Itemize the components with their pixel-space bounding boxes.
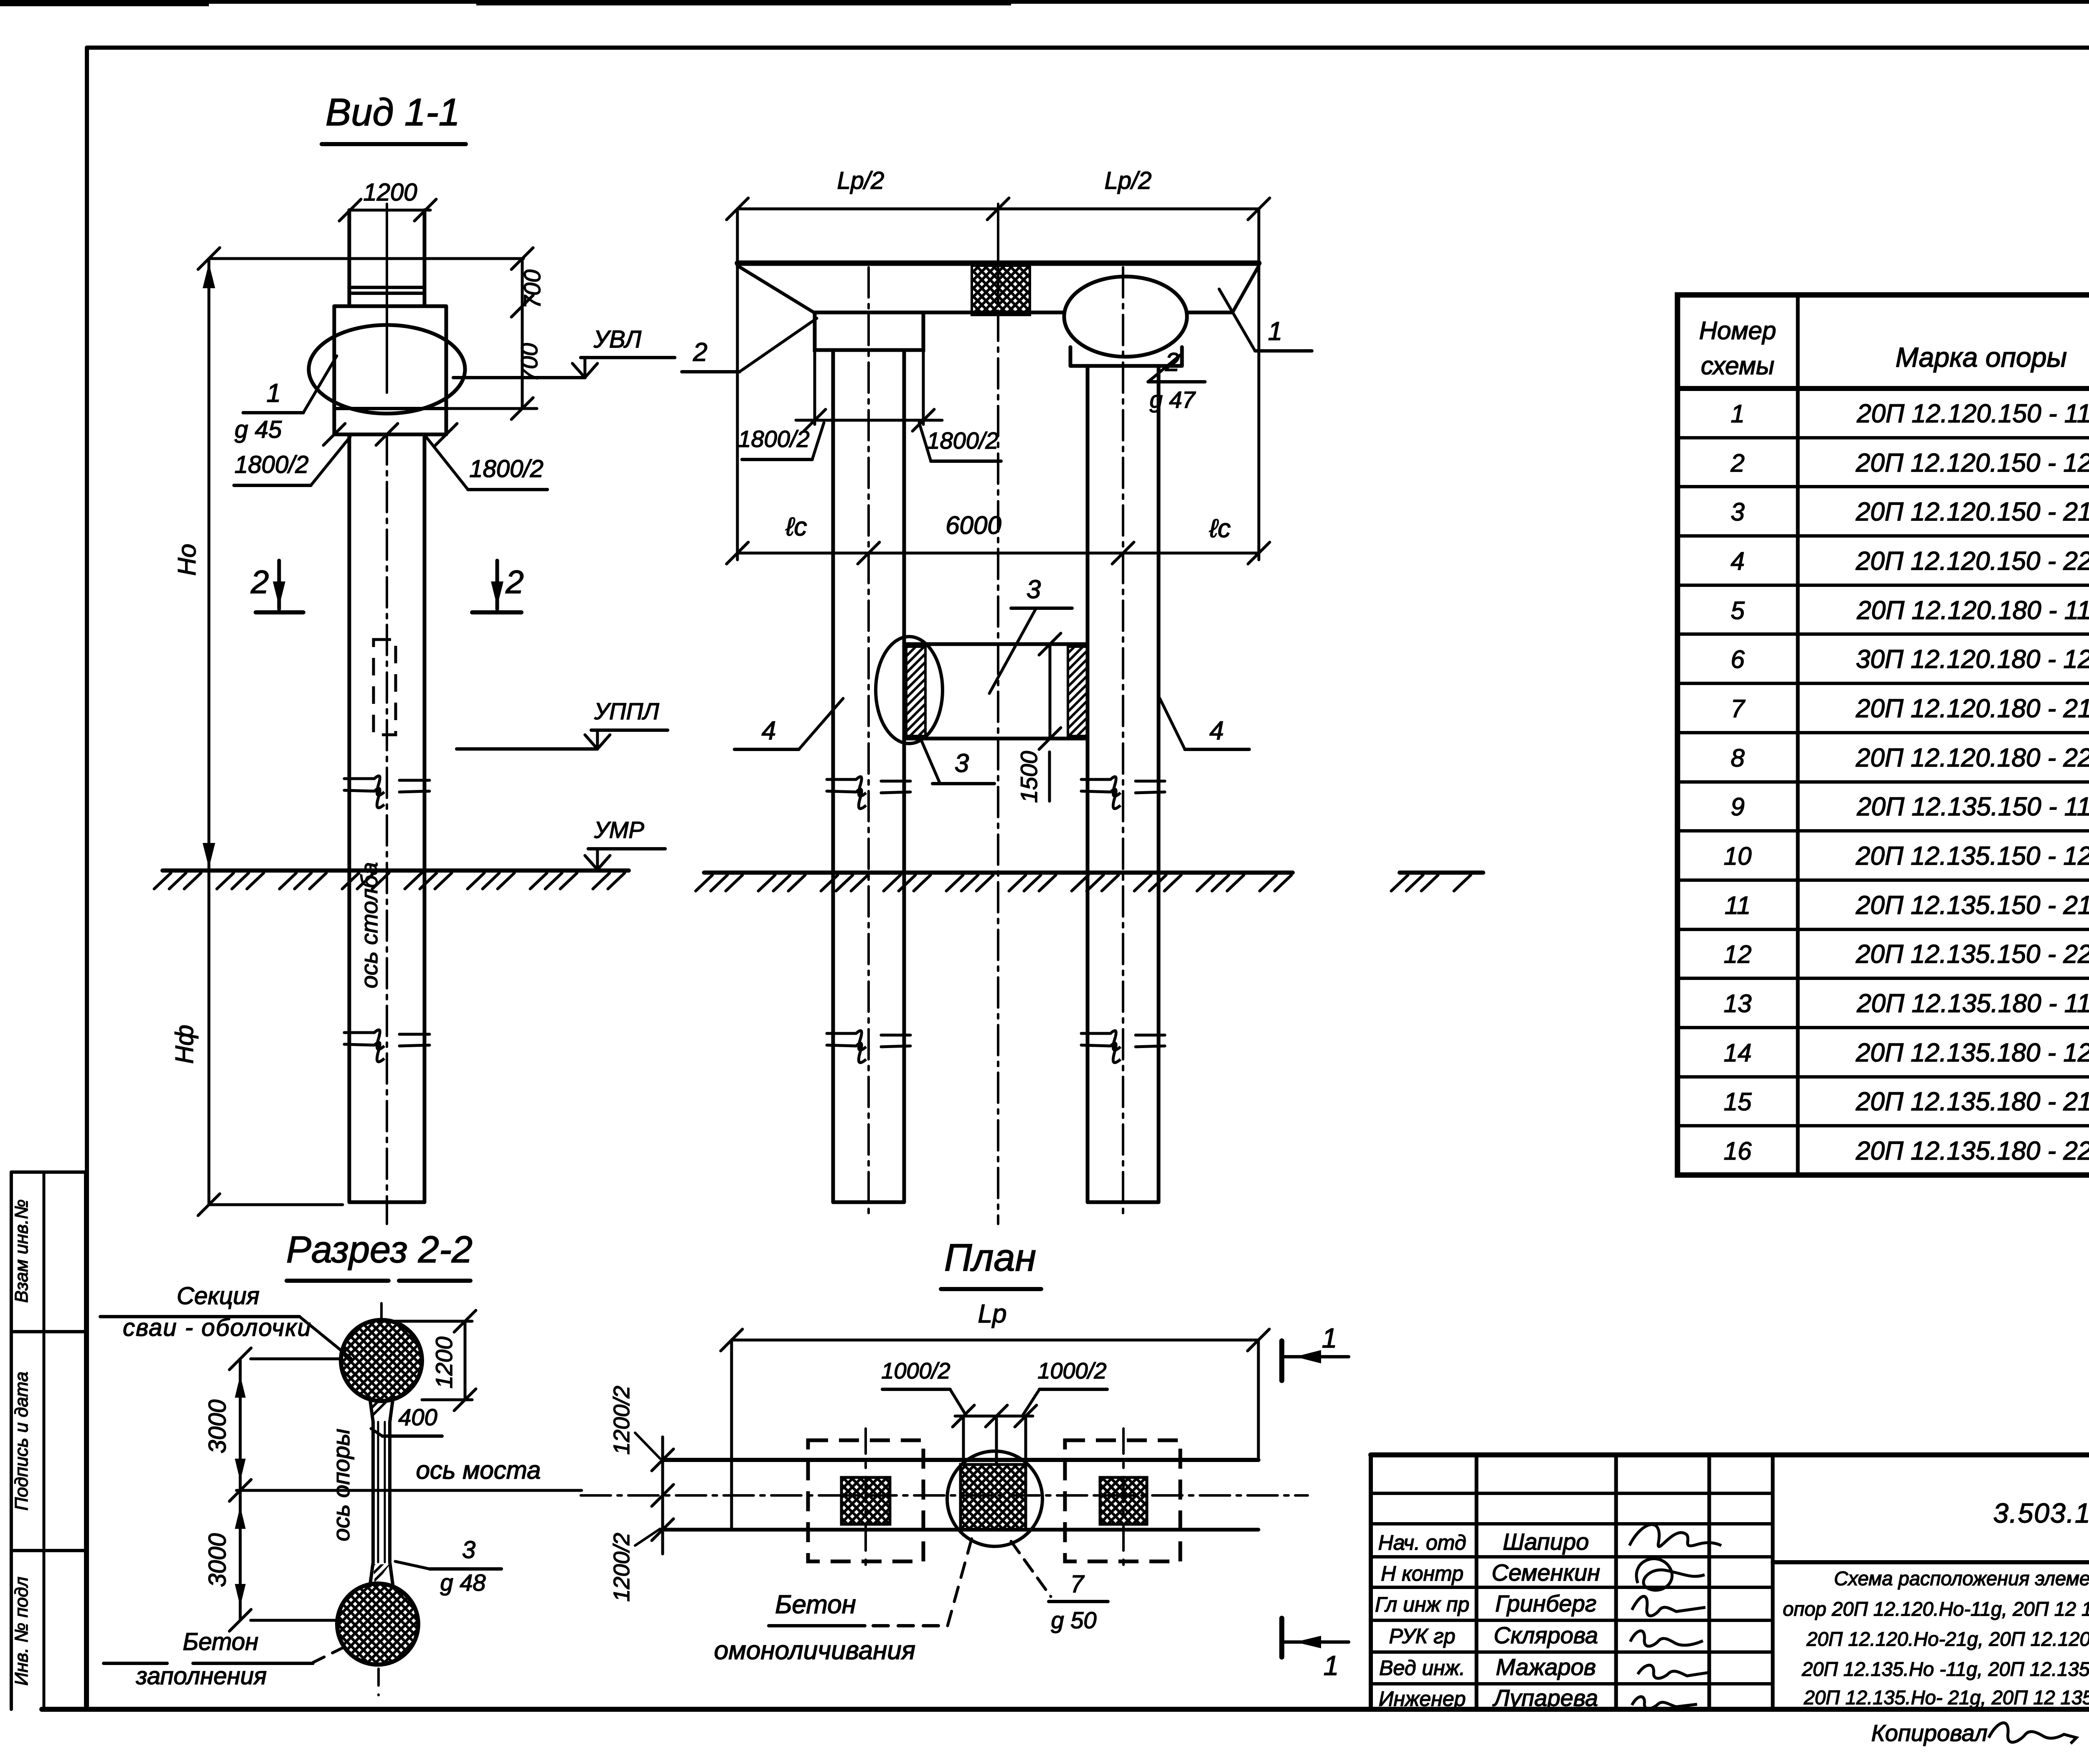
svg-text:14: 14 (1724, 1039, 1752, 1067)
svg-text:13: 13 (1724, 990, 1752, 1018)
svg-text:3: 3 (1731, 498, 1744, 526)
svg-text:Lр: Lр (978, 1300, 1007, 1328)
svg-text:3: 3 (462, 1536, 475, 1563)
svg-text:1500: 1500 (1016, 751, 1042, 803)
svg-text:Гринберг: Гринберг (1495, 1590, 1597, 1617)
svg-text:700: 700 (519, 269, 545, 308)
svg-text:20П 12.120.150 - 21g: 20П 12.120.150 - 21g (1855, 497, 2089, 526)
svg-text:g 50: g 50 (1051, 1607, 1097, 1633)
svg-text:Но: Но (173, 544, 201, 576)
svg-text:2: 2 (505, 563, 524, 600)
svg-text:20П 12.135.180 - 22g: 20П 12.135.180 - 22g (1855, 1137, 2089, 1165)
svg-text:Марка опоры: Марка опоры (1896, 342, 2067, 373)
svg-text:Нф: Нф (170, 1025, 198, 1063)
svg-text:Lр/2: Lр/2 (837, 167, 884, 194)
svg-text:6000: 6000 (945, 511, 1001, 539)
svg-text:2: 2 (1730, 449, 1744, 477)
svg-text:3: 3 (1027, 575, 1041, 604)
svg-text:20П 12.135.150 - 22g: 20П 12.135.150 - 22g (1855, 940, 2089, 969)
svg-text:20П 12.120.150 - 11g: 20П 12.120.150 - 11g (1856, 399, 2089, 428)
svg-text:Разрез 2-2: Разрез 2-2 (286, 1229, 473, 1271)
svg-text:4: 4 (762, 716, 776, 745)
svg-text:3000: 3000 (204, 1533, 231, 1587)
svg-text:9: 9 (1731, 793, 1744, 821)
svg-text:20П 12.135.180 - 21g: 20П 12.135.180 - 21g (1855, 1087, 2089, 1116)
svg-text:ℓс: ℓс (785, 513, 807, 541)
svg-text:Схема расположения элементов: Схема расположения элементов (1834, 1567, 2089, 1589)
svg-text:Вед инж.: Вед инж. (1379, 1656, 1465, 1680)
svg-text:Семенкин: Семенкин (1492, 1559, 1600, 1586)
svg-text:1200/2: 1200/2 (609, 1386, 634, 1454)
svg-text:1800/2: 1800/2 (469, 455, 543, 482)
svg-text:1: 1 (1324, 1650, 1339, 1681)
svg-text:11: 11 (1725, 891, 1751, 919)
svg-text:План: План (944, 1236, 1036, 1279)
svg-text:6: 6 (1731, 645, 1745, 673)
svg-text:3: 3 (955, 749, 969, 778)
svg-text:Вид 1-1: Вид 1-1 (325, 91, 460, 134)
svg-text:8: 8 (1731, 744, 1745, 772)
svg-text:1800/2: 1800/2 (927, 427, 998, 454)
svg-text:1000/2: 1000/2 (1037, 1358, 1106, 1383)
svg-text:20П 12.120.180 - 22g: 20П 12.120.180 - 22g (1855, 744, 2089, 772)
svg-text:5: 5 (1731, 596, 1745, 624)
svg-text:4: 4 (1731, 547, 1744, 575)
svg-text:заполнения: заполнения (136, 1662, 267, 1690)
svg-text:Склярова: Склярова (1494, 1622, 1598, 1648)
svg-text:Лупарева: Лупарева (1492, 1685, 1598, 1711)
svg-text:1: 1 (1322, 1322, 1337, 1353)
svg-text:Взам инв.№: Взам инв.№ (11, 1199, 32, 1303)
svg-text:20П 12.120.Но-21g, 20П 12.120.: 20П 12.120.Но-21g, 20П 12.120.Но-22g, (1806, 1628, 2089, 1650)
svg-text:ось моста: ось моста (416, 1456, 541, 1484)
svg-text:g 47: g 47 (1150, 386, 1196, 413)
svg-text:1800/2: 1800/2 (234, 451, 308, 478)
svg-text:20П 12.120.180 - 21g: 20П 12.120.180 - 21g (1855, 694, 2089, 723)
svg-text:7: 7 (1070, 1571, 1085, 1598)
svg-text:10: 10 (1724, 842, 1752, 870)
svg-text:3000: 3000 (204, 1399, 231, 1453)
svg-text:Подпись и дата: Подпись и дата (11, 1372, 32, 1511)
svg-text:УППЛ: УППЛ (594, 698, 659, 724)
svg-text:Lр/2: Lр/2 (1105, 167, 1152, 194)
svg-text:12: 12 (1724, 940, 1752, 968)
svg-text:Мажаров: Мажаров (1496, 1654, 1596, 1680)
svg-text:1800/2: 1800/2 (738, 426, 809, 452)
svg-text:Номер: Номер (1699, 317, 1776, 345)
svg-text:400: 400 (398, 1404, 437, 1430)
svg-text:Нач. отд: Нач. отд (1378, 1531, 1466, 1554)
svg-text:Секция: Секция (177, 1282, 259, 1310)
svg-text:30П 12.120.180 - 12g: 30П 12.120.180 - 12g (1856, 645, 2089, 674)
svg-text:Копировал: Копировал (1871, 1720, 1988, 1746)
svg-text:20П 12.135.150 - 11g: 20П 12.135.150 - 11g (1856, 792, 2089, 821)
svg-text:Инв. № подл: Инв. № подл (11, 1577, 32, 1686)
svg-text:20П 12.120.150 - 12g: 20П 12.120.150 - 12g (1855, 449, 2089, 477)
svg-text:20П 12.135.Но -11g, 20П 12.135: 20П 12.135.Но -11g, 20П 12.135.Но- 12g, (1802, 1658, 2089, 1680)
svg-text:2: 2 (250, 563, 269, 600)
svg-text:ℓс: ℓс (1209, 514, 1230, 543)
svg-text:УМР: УМР (594, 817, 644, 843)
svg-text:омоноличивания: омоноличивания (714, 1636, 915, 1665)
svg-text:20П 12.135.Но- 21g, 20П 12 135: 20П 12.135.Но- 21g, 20П 12 135.Но- 22g (1804, 1686, 2089, 1708)
svg-text:1: 1 (1731, 400, 1744, 428)
svg-text:1: 1 (1268, 317, 1282, 346)
svg-text:РУК гр: РУК гр (1389, 1624, 1456, 1648)
svg-text:2: 2 (693, 338, 707, 367)
svg-text:Бетон: Бетон (183, 1628, 258, 1655)
svg-text:20П 12.135.180 - 12g: 20П 12.135.180 - 12g (1855, 1038, 2089, 1067)
svg-text:g 45: g 45 (235, 416, 282, 443)
svg-text:20П 12.135.150 - 12g: 20П 12.135.150 - 12g (1855, 842, 2089, 871)
svg-text:1: 1 (267, 379, 281, 408)
svg-text:20П 12.120.180 - 11g: 20П 12.120.180 - 11g (1856, 596, 2089, 625)
svg-text:ось столба: ось столба (356, 862, 382, 988)
svg-text:Инженер: Инженер (1379, 1687, 1466, 1711)
svg-text:1200: 1200 (431, 1337, 457, 1389)
svg-text:20П 12.135.180 - 11g: 20П 12.135.180 - 11g (1856, 989, 2089, 1018)
svg-text:опор 20П 12.120.Но-11g, 20П 12: опор 20П 12.120.Но-11g, 20П 12 120.Но-12… (1783, 1598, 2089, 1620)
svg-text:УВЛ: УВЛ (593, 326, 641, 353)
svg-text:7: 7 (1731, 695, 1746, 723)
svg-text:20П 12.135.150 - 21g: 20П 12.135.150 - 21g (1855, 891, 2089, 920)
svg-text:g 48: g 48 (440, 1569, 486, 1596)
svg-text:Н контр: Н контр (1381, 1562, 1464, 1585)
svg-text:1000/2: 1000/2 (881, 1358, 950, 1383)
svg-text:Гл инж пр: Гл инж пр (1375, 1593, 1469, 1616)
svg-text:3.503.1-69.1: 3.503.1-69.1 (1993, 1497, 2089, 1528)
svg-text:схемы: схемы (1701, 352, 1774, 380)
svg-text:16: 16 (1724, 1137, 1752, 1165)
svg-text:Бетон: Бетон (775, 1590, 856, 1619)
svg-text:4: 4 (1210, 716, 1224, 745)
svg-text:1200/2: 1200/2 (609, 1533, 634, 1602)
svg-text:ось опоры: ось опоры (328, 1429, 354, 1541)
svg-text:15: 15 (1724, 1088, 1752, 1116)
svg-text:Шапиро: Шапиро (1503, 1528, 1589, 1555)
svg-text:1200: 1200 (363, 179, 417, 206)
svg-text:20П 12.120.150 - 22g: 20П 12.120.150 - 22g (1855, 547, 2089, 576)
